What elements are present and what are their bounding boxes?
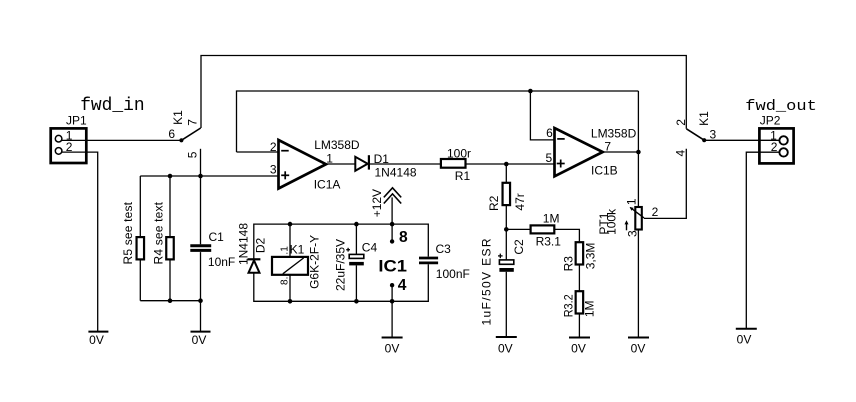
svg-text:7: 7	[185, 119, 199, 126]
svg-text:G6K-2F-Y: G6K-2F-Y	[308, 235, 322, 289]
svg-text:4: 4	[673, 150, 687, 157]
svg-text:100k: 100k	[605, 208, 619, 235]
svg-text:4: 4	[398, 277, 407, 294]
svg-text:IC1: IC1	[378, 257, 407, 276]
svg-text:0V: 0V	[737, 333, 752, 347]
svg-text:6: 6	[546, 126, 553, 140]
svg-text:10nF: 10nF	[208, 255, 235, 269]
svg-text:7: 7	[604, 140, 611, 154]
svg-text:C2: C2	[512, 239, 526, 255]
svg-text:1M: 1M	[543, 212, 560, 226]
svg-text:3: 3	[626, 230, 640, 237]
svg-text:100nF: 100nF	[436, 267, 470, 281]
svg-text:R3.1: R3.1	[536, 234, 562, 248]
svg-text:R3: R3	[561, 256, 575, 272]
svg-text:K1: K1	[697, 111, 711, 126]
svg-text:R2: R2	[487, 195, 501, 211]
svg-text:3: 3	[710, 128, 717, 142]
svg-text:0V: 0V	[498, 342, 513, 356]
svg-text:fwd_in: fwd_in	[80, 95, 145, 116]
svg-text:3,3M: 3,3M	[583, 243, 597, 270]
svg-text:1: 1	[624, 198, 638, 205]
svg-text:K1: K1	[171, 110, 185, 125]
svg-text:0V: 0V	[631, 342, 646, 356]
svg-text:2: 2	[674, 119, 688, 126]
svg-text:6: 6	[168, 127, 175, 141]
svg-text:D1: D1	[374, 152, 390, 166]
svg-text:8.: 8.	[280, 277, 291, 285]
svg-text:1: 1	[326, 152, 333, 166]
svg-text:R3.2: R3.2	[561, 294, 575, 317]
svg-text:IC1B: IC1B	[591, 163, 618, 177]
svg-text:C4: C4	[362, 241, 378, 255]
svg-text:D2: D2	[253, 238, 267, 254]
svg-text:1N4148: 1N4148	[375, 165, 417, 179]
svg-text:R1: R1	[455, 169, 471, 183]
svg-text:R4 see text: R4 see text	[151, 201, 165, 264]
svg-text:R5 see test: R5 see test	[121, 201, 135, 264]
svg-text:8: 8	[399, 229, 408, 246]
svg-text:C3: C3	[436, 242, 452, 256]
svg-text:1uF/50V ESR: 1uF/50V ESR	[480, 238, 494, 325]
svg-text:1M: 1M	[583, 300, 597, 317]
svg-text:LM358D: LM358D	[591, 127, 637, 141]
svg-text:JP1: JP1	[66, 113, 87, 127]
svg-text:5: 5	[185, 151, 199, 158]
svg-text:.1: .1	[280, 246, 291, 255]
svg-text:0V: 0V	[385, 342, 400, 356]
svg-text:2: 2	[771, 140, 778, 154]
svg-text:K1: K1	[290, 243, 305, 257]
svg-text:JP2: JP2	[760, 114, 781, 128]
svg-text:1N4148: 1N4148	[237, 223, 251, 265]
svg-text:2: 2	[652, 205, 659, 219]
svg-text:0V: 0V	[89, 333, 104, 347]
svg-text:0V: 0V	[192, 333, 207, 347]
svg-text:0V: 0V	[571, 342, 586, 356]
svg-text:100r: 100r	[447, 147, 471, 161]
svg-text:fwd_out: fwd_out	[745, 99, 817, 115]
svg-text:+12V: +12V	[370, 189, 384, 217]
svg-text:IC1A: IC1A	[314, 178, 341, 192]
svg-text:2: 2	[270, 140, 277, 154]
svg-text:47r: 47r	[513, 193, 527, 210]
svg-text:LM358D: LM358D	[314, 138, 360, 152]
svg-text:3: 3	[270, 163, 277, 177]
svg-text:5: 5	[546, 151, 553, 165]
svg-text:2: 2	[66, 140, 73, 154]
svg-text:C1: C1	[209, 230, 225, 244]
svg-text:22uF/35V: 22uF/35V	[334, 239, 348, 291]
